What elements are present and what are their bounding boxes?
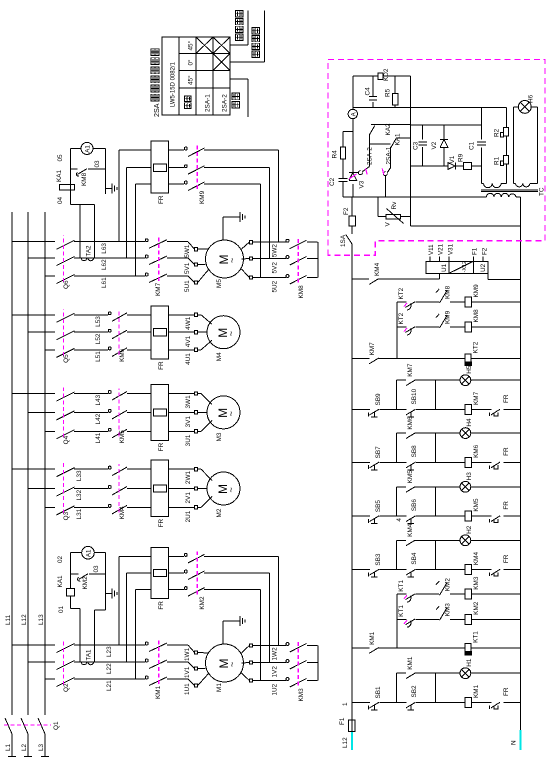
- terminal 4W1: [194, 313, 197, 316]
- svg-text:1W1: 1W1: [184, 647, 191, 661]
- rung wire KM4: [352, 569, 370, 571]
- wire L41: [74, 430, 108, 432]
- wires to FR: [127, 506, 151, 508]
- svg-text:TA1: TA1: [86, 649, 93, 660]
- lamp branch wire H2: [436, 539, 460, 541]
- wire meter return: [95, 609, 106, 611]
- svg-text:KD2: KD2: [383, 68, 390, 81]
- wire X12 U2 to N: [487, 273, 489, 279]
- wire drop to Q5 pole a: [12, 314, 55, 316]
- terminal 2V1: [194, 487, 197, 490]
- wire tee to FR path c: [135, 590, 137, 679]
- contactor contacts KM9: [184, 181, 187, 184]
- rung wire KM5 coil to FR: [472, 515, 492, 517]
- wire 1W2 to star contact: [253, 645, 286, 647]
- svg-text:Q6: Q6: [63, 280, 70, 289]
- ammeter A1: [71, 552, 82, 554]
- thermal relay FR heaters: [151, 141, 169, 193]
- ground meter circuit M1: [106, 593, 113, 595]
- fuse F2: [349, 216, 355, 226]
- wire L32: [74, 488, 108, 490]
- lamp H5: [460, 375, 471, 386]
- rung wire KM2: [397, 618, 407, 620]
- contact KM4 seal: [406, 540, 415, 546]
- svg-text:H4: H4: [466, 418, 473, 427]
- wire L1 incoming: [11, 734, 13, 757]
- wire L21: [74, 678, 145, 680]
- seal branch KM7: [396, 380, 398, 409]
- wire diode column: [411, 165, 423, 167]
- capacitor C3: [419, 144, 427, 146]
- svg-text:Rv: Rv: [391, 201, 398, 210]
- motor M3: [207, 396, 240, 429]
- svg-text:H2: H2: [466, 525, 473, 534]
- svg-text:V3: V3: [359, 180, 366, 188]
- wires terminals to motor: [198, 506, 201, 508]
- motor M5: [206, 240, 244, 278]
- wires terminals to motor: [198, 430, 201, 432]
- linkage KM5: [118, 389, 120, 437]
- seal branch KM5: [396, 487, 398, 516]
- wire drop to Q4 pole a: [12, 393, 55, 395]
- button SB3: [370, 569, 380, 575]
- svg-text:Q4: Q4: [63, 435, 70, 444]
- wire drop to Q4 pole c: [45, 430, 55, 432]
- wire 5U2 to star contact: [253, 277, 286, 279]
- svg-text:KT2: KT2: [398, 287, 405, 299]
- svg-text:03: 03: [94, 160, 101, 168]
- terminal stub V21: [439, 256, 441, 261]
- linkage KM8: [297, 237, 299, 282]
- terminal 3V1: [194, 411, 197, 414]
- wire L52: [74, 331, 108, 333]
- switch Q6: [74, 275, 80, 277]
- button SB9: [370, 409, 380, 415]
- svg-text:L22: L22: [106, 663, 113, 674]
- svg-text:1U1: 1U1: [184, 683, 191, 695]
- transformer TC primary: [487, 193, 517, 197]
- contactor contacts KM6: [108, 347, 111, 350]
- svg-text:SB2: SB2: [411, 685, 418, 698]
- svg-text:M3: M3: [216, 432, 223, 441]
- svg-text:L51: L51: [95, 351, 102, 362]
- contact KM7 aux: [369, 358, 378, 364]
- coil KM8: [465, 322, 472, 332]
- svg-text:FR: FR: [503, 394, 510, 403]
- svg-text:H3: H3: [466, 472, 473, 481]
- svg-text:1V1: 1V1: [184, 666, 191, 678]
- switch Q5: [74, 349, 80, 351]
- svg-text:L2: L2: [21, 743, 28, 751]
- current transformer TA1: [80, 645, 95, 662]
- svg-text:L62: L62: [101, 259, 108, 270]
- linkage Q4: [63, 388, 65, 438]
- coil KM7: [465, 405, 472, 415]
- rung wire KM7 coil to FR: [472, 409, 492, 411]
- wire meter return M5: [104, 148, 106, 194]
- contact KA1: [391, 139, 396, 148]
- ammeter A: [348, 109, 357, 118]
- wire 04: [70, 204, 94, 206]
- svg-text:U1: U1: [441, 263, 448, 271]
- svg-text:45°: 45°: [187, 75, 195, 85]
- terminal 5V2: [242, 258, 250, 261]
- svg-text:C3: C3: [413, 141, 420, 150]
- contactor contacts KM2: [184, 587, 187, 590]
- lamp H3: [460, 481, 471, 492]
- contact KM6 seal: [406, 433, 415, 439]
- svg-text:KM7: KM7: [155, 282, 162, 296]
- svg-text:~: ~: [226, 411, 236, 416]
- resistor R2: [504, 127, 509, 136]
- wire V2 row: [443, 148, 445, 167]
- contact KM8 aux: [70, 168, 77, 170]
- svg-text:L52: L52: [95, 333, 102, 344]
- wire 1SA-F2 to rail: [351, 197, 353, 216]
- terminal L1: [8, 756, 16, 758]
- button SB8: [406, 462, 416, 468]
- switch Q1: [5, 718, 12, 734]
- terminal 4V1: [194, 331, 197, 334]
- terminal 2U1: [194, 506, 197, 509]
- svg-text:F1: F1: [339, 717, 346, 725]
- wire drop to Q2 pole b: [28, 661, 55, 663]
- svg-text:5V2: 5V2: [272, 262, 279, 274]
- svg-text:L11: L11: [5, 614, 12, 625]
- terminal 5W1: [194, 248, 197, 251]
- wires terminals to motor: [198, 349, 201, 351]
- svg-text:L21: L21: [106, 680, 113, 691]
- cross 2SA-2 0deg: [213, 54, 230, 71]
- svg-text:FR: FR: [158, 518, 165, 527]
- linkage Q5: [63, 309, 65, 356]
- button SB10: [406, 409, 416, 415]
- wire 02: [70, 553, 72, 589]
- thermal relay FR heaters: [151, 306, 169, 359]
- svg-text:L13: L13: [38, 614, 45, 625]
- component KD2: [378, 73, 383, 79]
- svg-text:5W1: 5W1: [184, 244, 191, 258]
- coil KM3: [465, 589, 472, 599]
- wire drop to Q3 pole b: [28, 488, 55, 490]
- svg-text:L43: L43: [95, 394, 102, 405]
- svg-text:45°: 45°: [187, 40, 195, 50]
- contact FR of KM7: [491, 409, 500, 415]
- button SB7: [370, 462, 380, 468]
- rung wire KT2 to N: [472, 357, 521, 359]
- rung wire KM9: [397, 301, 407, 303]
- svg-text:FR: FR: [158, 361, 165, 370]
- rung wire KM1: [352, 702, 370, 704]
- wire C3 row: [422, 147, 424, 166]
- relay coil KA1 (M5): [59, 184, 74, 189]
- rung wire KM1 mid: [380, 702, 407, 704]
- wires to FR: [127, 349, 151, 351]
- svg-text:KM1: KM1: [369, 631, 376, 645]
- svg-text:2SA: 2SA: [152, 103, 161, 117]
- terminal block -X12: [426, 261, 488, 273]
- terminal stub V11: [429, 256, 431, 261]
- svg-text:2W1: 2W1: [185, 471, 192, 485]
- rung wire KM3: [397, 593, 407, 595]
- svg-text:FR: FR: [503, 687, 510, 696]
- coil KM9: [465, 297, 472, 307]
- wire H6 bottom: [530, 182, 538, 184]
- contactor contacts KM8: [286, 275, 289, 278]
- svg-text:KM1: KM1: [155, 685, 162, 699]
- svg-text:KM7: KM7: [473, 391, 480, 405]
- wires to motor terminals: [167, 275, 188, 277]
- rung wire KM4 coil to FR: [472, 569, 492, 571]
- rung wire KM1 to N: [504, 702, 521, 704]
- svg-text:H1: H1: [466, 658, 473, 667]
- seal branch KM4: [396, 540, 398, 569]
- wires side contactor down: [204, 589, 260, 591]
- wire rail1 into box: [351, 244, 353, 246]
- svg-text:KM7: KM7: [407, 363, 414, 377]
- terminal 1V2: [242, 662, 250, 665]
- svg-text:KM1: KM1: [473, 684, 480, 698]
- linkage KM9: [196, 145, 198, 189]
- svg-text:KT2: KT2: [398, 312, 405, 324]
- terminal stub F1: [472, 256, 474, 261]
- svg-text:SB3: SB3: [375, 553, 382, 566]
- wire drop to Q4 pole b: [28, 411, 55, 413]
- lamp H1: [460, 668, 471, 679]
- wire rectifier rail vertical: [343, 196, 487, 198]
- svg-text:~: ~: [226, 331, 236, 336]
- svg-text:V11: V11: [428, 244, 435, 255]
- relay coil KA1: [67, 589, 75, 596]
- wire L33: [74, 468, 108, 470]
- wires to motor terminals: [167, 678, 188, 680]
- rung wire KM3 to N: [472, 593, 521, 595]
- svg-text:F2: F2: [343, 207, 350, 215]
- contact KM4 aux: [369, 279, 378, 285]
- contactor contacts KM1: [145, 676, 148, 679]
- svg-text:V: V: [385, 222, 392, 227]
- rung wire KM7 to coil: [416, 409, 465, 411]
- linkage Q1: [4, 724, 51, 726]
- svg-text:M1: M1: [216, 683, 223, 692]
- linkage KM1: [158, 640, 160, 684]
- wire L53: [74, 314, 108, 316]
- rung wire KM6 mid: [380, 461, 407, 463]
- svg-text:TA2: TA2: [86, 245, 93, 256]
- svg-text:Q5: Q5: [63, 354, 70, 363]
- wire 1U2 to star contact: [253, 680, 286, 682]
- terminal 5U1: [194, 281, 197, 284]
- svg-text:H5: H5: [466, 365, 473, 374]
- rung wire KM4 to N: [504, 569, 521, 571]
- wire drop to Q5 pole b: [28, 331, 55, 333]
- svg-text:KM8: KM8: [81, 172, 88, 186]
- svg-text:L53: L53: [95, 316, 102, 327]
- svg-text:2SA-2: 2SA-2: [367, 147, 374, 165]
- svg-text:KM4: KM4: [407, 523, 414, 537]
- svg-text:SB6: SB6: [411, 499, 418, 512]
- svg-text:KM2: KM2: [445, 578, 452, 592]
- svg-text:05: 05: [57, 154, 64, 162]
- svg-text:SB8: SB8: [411, 445, 418, 458]
- seal branch KM6: [396, 433, 398, 462]
- button SB5: [370, 516, 380, 522]
- terminal 1W1: [194, 651, 197, 654]
- linkage KM4: [118, 464, 120, 512]
- wire TA1 secondary top: [79, 608, 81, 645]
- switch Q3: [74, 506, 80, 508]
- wire KD2 branch: [353, 75, 378, 77]
- contact KM9 interlock: [440, 316, 448, 329]
- terminal 4U1: [194, 348, 197, 351]
- wire main dc bus: [410, 76, 412, 226]
- svg-text:2V1: 2V1: [185, 492, 192, 504]
- terminal 5U2: [242, 269, 250, 278]
- transformer TC secondary 2: [516, 183, 530, 187]
- wire 5W2 to FR path: [277, 150, 279, 242]
- svg-text:KA1: KA1: [57, 575, 64, 588]
- svg-text:KM3: KM3: [473, 576, 480, 590]
- wire V1 column: [444, 165, 448, 167]
- svg-text:~: ~: [226, 487, 236, 492]
- wire 5V2 to FR path: [269, 168, 271, 259]
- svg-text:Q1: Q1: [53, 721, 60, 730]
- wire 2SA-1 feed: [385, 176, 387, 198]
- svg-text:5U1: 5U1: [184, 280, 191, 292]
- svg-text:4U1: 4U1: [185, 353, 192, 365]
- current transformer TA2: [80, 242, 95, 259]
- contact KM1 seal: [406, 673, 415, 679]
- wire 5U2 to FR path: [259, 184, 261, 278]
- motor M1: [206, 644, 244, 682]
- svg-text:KM8: KM8: [298, 285, 305, 299]
- svg-text:3V1: 3V1: [185, 416, 192, 428]
- svg-text:3W1: 3W1: [185, 395, 192, 409]
- wire A line to KD2: [352, 76, 354, 108]
- svg-text:L1: L1: [5, 743, 12, 751]
- rung wire KT1 to N: [472, 647, 521, 649]
- motor M2: [207, 472, 240, 505]
- svg-text:KA1: KA1: [56, 169, 63, 182]
- terminal 1U1: [194, 684, 197, 687]
- svg-text:H6: H6: [528, 94, 535, 103]
- annotation manual feed: [230, 44, 248, 46]
- svg-text:~: ~: [227, 258, 237, 263]
- contact KT2 delayed: [406, 327, 416, 333]
- coil KM1: [465, 698, 472, 708]
- svg-text:M5: M5: [216, 279, 223, 288]
- svg-text:A1: A1: [86, 549, 93, 557]
- wire tee to FR path c: [135, 184, 137, 276]
- contact 2SA-1: [383, 172, 387, 176]
- contact KA2: [369, 126, 375, 136]
- wire L31: [74, 506, 108, 508]
- wire drop to Q3 pole a: [12, 468, 55, 470]
- wire drop to Q2 pole c: [45, 678, 55, 680]
- svg-text:KM2: KM2: [199, 596, 206, 610]
- wire drop to Q6 pole c: [45, 275, 55, 277]
- wire 1W2 to FR path: [277, 556, 279, 645]
- lamp H4: [460, 428, 471, 439]
- capacitor C2: [339, 181, 348, 183]
- svg-text:M2: M2: [216, 508, 223, 517]
- rung wire KM1 coil to FR: [472, 702, 492, 704]
- rung wire KM5 to coil: [416, 515, 465, 517]
- rung wire KM5 mid: [380, 515, 407, 517]
- tie wire KT1 group: [396, 594, 398, 648]
- resistor R5: [392, 94, 398, 105]
- wires FR to motor terminals: [169, 430, 195, 432]
- terminal 1W2: [242, 646, 250, 654]
- contact KM5 seal: [406, 487, 415, 493]
- svg-text:KM5: KM5: [407, 470, 414, 484]
- capacitor C4: [369, 99, 377, 101]
- switch Q4: [74, 430, 80, 432]
- svg-text:4W1: 4W1: [185, 316, 192, 330]
- svg-text:KM6: KM6: [473, 444, 480, 458]
- rung wire KM8: [397, 326, 407, 328]
- svg-text:FR: FR: [158, 195, 165, 204]
- svg-text:KT1: KT1: [398, 605, 405, 617]
- svg-text:KM4: KM4: [119, 506, 126, 520]
- thermal relay FR heaters: [151, 547, 169, 598]
- svg-text:A1: A1: [85, 145, 92, 153]
- contact KM2 aux: [71, 573, 79, 575]
- contact KT1 delayed: [406, 594, 416, 600]
- svg-text:FR: FR: [503, 501, 510, 510]
- svg-text:Q2: Q2: [63, 683, 70, 692]
- wires terminals to motor: [198, 269, 209, 283]
- svg-text:L42: L42: [95, 413, 102, 424]
- svg-text:1: 1: [342, 702, 349, 706]
- contact FR of KM1: [491, 702, 500, 708]
- rung wire KM7 to N: [504, 409, 521, 411]
- svg-text:FR: FR: [158, 601, 165, 610]
- ground meter circuit M5: [105, 188, 112, 190]
- svg-text:KM6: KM6: [407, 416, 414, 430]
- wire Rv feed: [377, 197, 379, 217]
- table header row: [195, 37, 197, 115]
- svg-text:KM2: KM2: [473, 601, 480, 615]
- transformer TC secondary 1: [484, 183, 502, 187]
- svg-text:KM1: KM1: [407, 656, 414, 670]
- svg-text:F2: F2: [481, 247, 488, 255]
- terminal L2: [24, 756, 32, 758]
- svg-text:V2: V2: [431, 141, 438, 149]
- terminal L3: [41, 756, 49, 758]
- svg-text:C2: C2: [329, 177, 336, 186]
- rung wire KM4 to coil: [416, 569, 465, 571]
- svg-text:4V1: 4V1: [185, 335, 192, 347]
- button SB1: [370, 702, 380, 708]
- svg-text:FR: FR: [503, 554, 510, 563]
- contact KM2 interlock: [440, 583, 448, 596]
- wires FR to motor terminals: [169, 349, 195, 351]
- svg-text:L3: L3: [38, 743, 45, 751]
- terminal 5W2: [242, 242, 250, 249]
- wire TC primary to N: [516, 196, 520, 198]
- svg-text:V21: V21: [438, 243, 445, 255]
- wire tee to FR path a: [118, 150, 120, 242]
- transformer TC core: [481, 190, 538, 192]
- wire P column: [411, 124, 482, 126]
- wire L42: [74, 411, 108, 413]
- svg-text:F1: F1: [471, 247, 478, 255]
- lamp H2: [460, 535, 471, 546]
- resistor R1: [504, 156, 509, 165]
- off-page marker L12: [351, 732, 353, 750]
- svg-text:L61: L61: [101, 277, 108, 288]
